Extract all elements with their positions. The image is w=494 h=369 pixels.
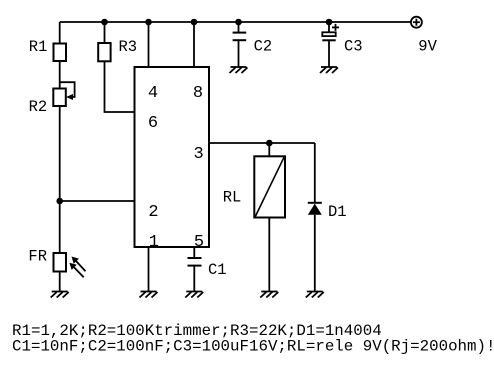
wire C3 top lead	[328, 22, 330, 32]
ground under C1	[185, 292, 203, 298]
capacitor C1	[188, 258, 202, 266]
wire C1 to ground	[193, 266, 195, 292]
wire pin 5 to C1	[193, 247, 195, 258]
wire R1 top lead	[59, 22, 61, 44]
svg-text:8: 8	[193, 84, 203, 103]
wire top power rail	[60, 21, 411, 23]
svg-text:C1: C1	[208, 261, 227, 279]
trimmer R2	[53, 89, 66, 107]
svg-text:D1: D1	[328, 203, 347, 221]
svg-text:2: 2	[148, 203, 158, 222]
svg-text:RL: RL	[223, 188, 242, 206]
wire C3 to ground	[328, 40, 330, 67]
node pin4 rail	[145, 19, 152, 26]
svg-text:1: 1	[149, 233, 159, 252]
photoresistor FR	[54, 253, 67, 272]
wire R1 to R2	[59, 61, 61, 89]
wire R3 top lead	[104, 22, 106, 44]
wire R3 to pin 6	[105, 61, 135, 112]
ground under RL	[260, 292, 278, 298]
svg-text:C3: C3	[344, 38, 363, 56]
svg-text:6: 6	[148, 114, 158, 133]
svg-text:R2: R2	[29, 98, 48, 116]
svg-text:C1=10nF;C2=100nF;C3=100uF16V;R: C1=10nF;C2=100nF;C3=100uF16V;RL=rele 9V(…	[12, 337, 494, 355]
node pin8 rail	[191, 19, 198, 26]
ground under C3	[320, 67, 338, 73]
relay RL	[254, 156, 285, 217]
9V supply terminal	[411, 17, 422, 28]
wire pin 2	[60, 200, 135, 202]
svg-text:9V: 9V	[418, 38, 437, 56]
wire FR to ground	[59, 272, 61, 292]
node junction pin2 branch	[56, 198, 63, 205]
diode D1	[308, 202, 322, 204]
wire pin 1 to ground	[148, 247, 150, 292]
resistor R3	[98, 43, 110, 61]
wire RL to ground	[268, 218, 270, 292]
node C2 rail	[235, 19, 242, 26]
ground under C2	[230, 67, 248, 73]
node RL branch	[266, 140, 273, 147]
capacitor C2	[233, 33, 247, 41]
wire pin 4	[148, 22, 150, 67]
node R3 top	[101, 19, 108, 26]
capacitor C3 polarity plus	[332, 24, 339, 31]
wire R2 to FR	[59, 106, 61, 254]
svg-text:4: 4	[148, 84, 158, 103]
svg-text:5: 5	[194, 233, 204, 252]
capacitor C3	[322, 32, 335, 36]
op-amp U1 555 body	[135, 67, 210, 247]
ground under pin 1	[140, 292, 158, 298]
wire C2 to ground	[238, 40, 240, 67]
wire RL top lead	[268, 143, 270, 156]
svg-text:R1: R1	[29, 38, 48, 56]
wire pin 3	[209, 142, 315, 144]
resistor R1	[54, 44, 67, 62]
wire C2 top lead	[238, 22, 240, 33]
svg-text:C2: C2	[254, 38, 273, 56]
wire D1 to ground	[314, 215, 316, 292]
svg-text:R3: R3	[119, 38, 138, 56]
node C3 rail	[326, 19, 333, 26]
svg-text:FR: FR	[28, 248, 47, 266]
wire D1 top lead	[314, 143, 316, 203]
ground under D1	[306, 292, 324, 298]
ground under FR	[51, 292, 69, 298]
svg-text:3: 3	[194, 145, 204, 164]
wire pin 8	[193, 22, 195, 67]
